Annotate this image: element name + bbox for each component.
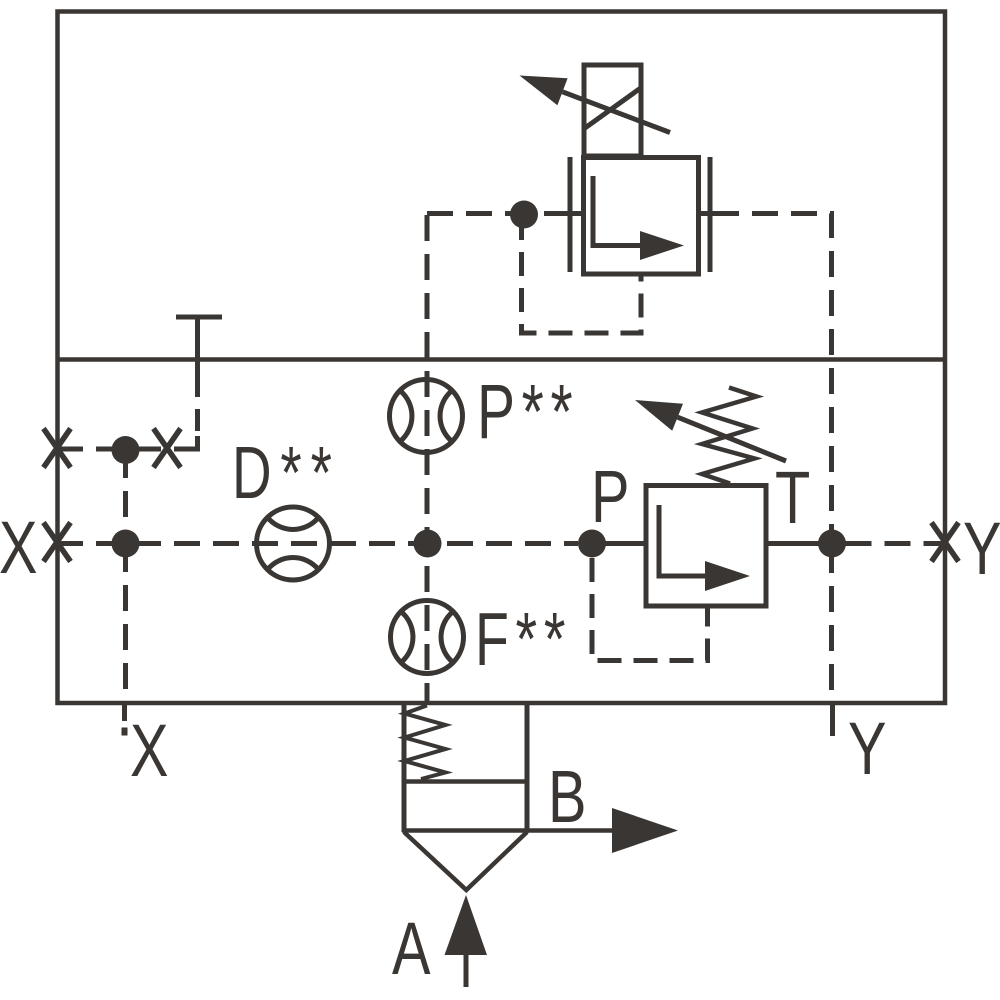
vent line (dashed) <box>195 375 200 440</box>
plugged port cross at left border (X) <box>44 523 71 562</box>
vent line corner <box>181 436 198 449</box>
pilot line T node to bottom border (dashed) <box>829 547 834 701</box>
pilot valve right mounting bar <box>708 157 713 272</box>
pilot valve V1 flow path arrow <box>593 176 684 260</box>
cartridge valve CV1 spring chamber line <box>404 779 527 784</box>
cartridge valve CV1 poppet seat <box>404 832 527 890</box>
label T (tank node) <box>775 457 810 540</box>
pilot valve right port stub <box>699 211 714 216</box>
svg-text:P: P <box>591 456 630 539</box>
relief valve V2 drain loop (dashed) <box>592 558 708 661</box>
svg-text:X: X <box>0 507 38 590</box>
pilot relief valve V1 body <box>584 158 699 275</box>
relief valve V2 adjustment arrow <box>635 400 786 461</box>
pilot line relief valve V2 to T node <box>766 541 832 546</box>
upper pilot line X1 (dashed) <box>57 447 181 452</box>
svg-text:T: T <box>775 457 810 540</box>
node T junction dot <box>818 530 846 558</box>
label Y (right port) <box>963 508 1000 591</box>
svg-text:Y: Y <box>848 708 887 791</box>
outer manifold block frame <box>58 12 946 704</box>
plugged port cross at left border (upper) <box>44 429 71 468</box>
cover/manifold divider line <box>56 357 948 362</box>
label X (left port) <box>0 507 38 590</box>
proportional solenoid box U1 <box>584 65 641 156</box>
cartridge valve CV1 spring <box>405 706 446 780</box>
plugged port cross at right border (Y) <box>932 523 959 562</box>
Y port stub below border <box>830 703 835 736</box>
relief valve V2 body <box>646 486 766 607</box>
label B (port B) <box>548 756 587 839</box>
pilot line J3 to bottom border (dashed) <box>123 546 128 700</box>
node J4 junction dot <box>414 530 442 558</box>
label P (pilot pressure node) <box>591 456 630 539</box>
svg-text:Y: Y <box>963 508 1000 591</box>
port B flow arrow <box>612 808 678 853</box>
pilot orifice P** <box>390 380 463 453</box>
pilot line P node to relief valve V2 <box>592 541 646 546</box>
cartridge valve CV1 left edge <box>402 703 407 832</box>
node J3 junction dot <box>112 530 140 558</box>
pilot line V1 to Y (dashed) <box>713 214 832 541</box>
center pilot line (dashed) <box>425 215 430 703</box>
svg-text:D**: D** <box>232 431 341 514</box>
pilot supply line to valve V1 (dashed) <box>427 211 567 216</box>
label X (bottom port) <box>130 710 169 793</box>
node P junction dot <box>578 530 606 558</box>
pilot valve left mounting bar <box>568 157 573 272</box>
pilot line X to P node (dashed) <box>57 541 578 546</box>
solenoid adjustment arrow <box>520 76 671 133</box>
svg-text:F**: F** <box>475 597 572 681</box>
svg-text:P**: P** <box>477 370 579 455</box>
port A flow arrow <box>445 895 488 987</box>
pilot orifice F** <box>391 601 464 674</box>
svg-text:X: X <box>130 710 169 793</box>
pilot drain loop of valve V1 (dashed) <box>522 216 642 333</box>
cartridge valve CV1 bottom line <box>402 828 529 833</box>
svg-text:A: A <box>392 908 431 991</box>
port B line <box>527 828 613 833</box>
solenoid diagonal stroke <box>585 89 640 129</box>
label P** (orifice P) <box>477 370 579 455</box>
node J1 junction dot <box>510 201 538 229</box>
measuring orifice D** <box>257 507 330 580</box>
vent plug T-symbol <box>176 317 222 375</box>
label D** (measuring orifice) <box>232 431 341 514</box>
pilot line T node to Y (dashed) <box>846 541 945 546</box>
X port stub below border <box>122 705 127 736</box>
node J2 junction dot <box>112 436 140 464</box>
label A (port A) <box>392 908 431 991</box>
cartridge valve CV1 right edge <box>525 703 530 832</box>
pilot valve left port stub <box>567 211 584 216</box>
pilot branch line J2 to J3 (dashed) <box>123 452 128 541</box>
relief valve V2 flow path arrow <box>659 505 750 591</box>
relief valve V2 spring <box>702 388 757 484</box>
plugged port cross at vent branch <box>154 429 181 468</box>
svg-text:B: B <box>548 756 587 839</box>
label Y (bottom port) <box>848 708 887 791</box>
label F** (orifice F) <box>475 597 572 681</box>
